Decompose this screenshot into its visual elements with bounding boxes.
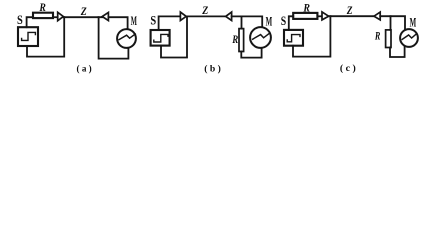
svg-text:( c ): ( c ) [340, 63, 356, 73]
svg-text:R: R [303, 2, 311, 14]
svg-text:Z: Z [346, 5, 353, 17]
svg-text:( a ): ( a ) [77, 64, 92, 74]
svg-text:S: S [281, 14, 286, 28]
svg-text:M: M [131, 14, 137, 28]
svg-text:M: M [410, 15, 417, 29]
svg-text:R: R [231, 34, 238, 46]
svg-text:Z: Z [80, 6, 87, 18]
svg-text:R: R [374, 31, 380, 43]
svg-text:S: S [150, 14, 156, 28]
svg-text:M: M [266, 15, 273, 29]
svg-text:( b ): ( b ) [204, 64, 221, 74]
svg-text:R: R [39, 2, 47, 14]
svg-text:S: S [17, 13, 23, 27]
svg-text:Z: Z [201, 5, 208, 17]
